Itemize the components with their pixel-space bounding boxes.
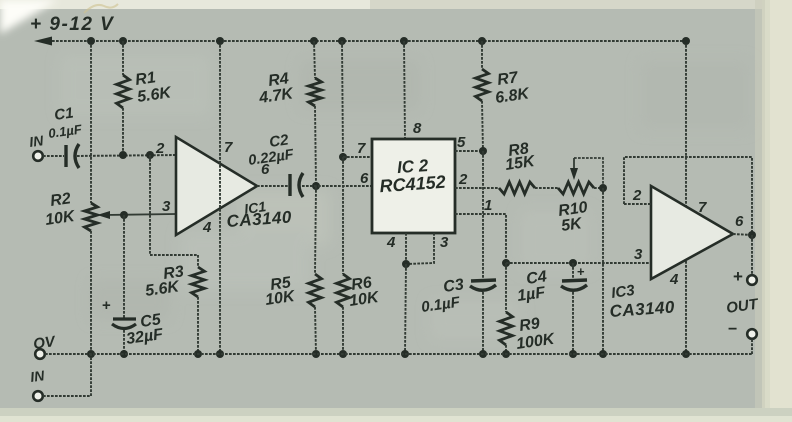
junction C4 ground [569,350,577,358]
wire V+ to IC2 pin8 [404,41,405,139]
V+ rail left arrow [34,37,52,46]
wire pin7node to R6 [342,157,344,274]
junction R9 ground [502,350,510,358]
wire C1 to pin2 node [77,155,176,156]
wire IC2 pin1 [455,214,506,263]
wire R6 ground [342,307,344,354]
junction R10 out [599,184,607,192]
op-amp U IC3 [651,186,733,279]
junction V+ R7 [478,37,486,45]
svg-text:4: 4 [386,234,396,251]
wire wiper to C5 [123,215,125,319]
junction pin2 R3 branch [146,151,154,159]
wire V+ to R7 [481,41,483,69]
capacitor C4 [561,280,587,290]
junction V+ R1 [119,37,127,45]
svg-text:R2: R2 [49,190,72,210]
wire node to R5 [315,186,316,274]
capacitor C2 [290,173,303,197]
junction V+ R2 column [87,37,95,45]
wire pin2 branch down [150,155,198,267]
junction IC3 V+ corner [682,37,690,45]
terminal IN bottom [33,391,43,401]
svg-text:−: − [728,321,737,338]
op-amp U IC1 [176,137,257,235]
wire C3 ground [482,292,484,354]
wire R5 ground [315,307,316,354]
svg-text:2: 2 [632,187,642,204]
wire IC2 pin2 to R8 [455,187,499,189]
R2 wiper arrow [97,211,176,219]
R10 wiper bracket [574,158,603,188]
svg-text:5: 5 [457,134,466,151]
wire V+ to R4 [314,41,315,78]
junction pin7 node [339,153,347,161]
junction C3 ground [479,350,487,358]
resistor R2 (pot) [85,203,98,231]
wire R2 to ground [90,231,92,354]
resistor R4 [309,78,322,106]
junction IC3 ground [682,350,690,358]
svg-text:8: 8 [413,120,422,137]
wire V+ rail corner to IC3 [685,41,687,354]
junction V+ R4 [310,37,318,45]
svg-text:+: + [102,297,111,314]
wire IC3 output [733,234,752,235]
resistor R6 [337,274,350,307]
junction pin5 node [479,147,487,155]
terminal IN top [33,151,43,161]
svg-text:+: + [577,264,585,279]
svg-text:4: 4 [669,271,679,288]
wire node to C4 and IC3 [506,262,651,264]
wire IN to C1 [43,155,64,157]
junction R5 ground [312,350,320,358]
wire R9 ground [505,345,507,354]
wire IC1 supply vertical [219,41,221,354]
wire R8 to R10 [535,187,558,189]
resistor R8 [499,182,535,194]
wire ground to minus [751,339,753,354]
junction C2 node [312,182,320,190]
IC U2 RC4152 box [372,139,455,233]
wire C5 to ground [123,330,125,354]
junction R1 input node [119,151,127,159]
terminal OUT plus [747,275,757,285]
svg-text:2: 2 [155,140,165,157]
svg-text:6: 6 [735,213,744,230]
svg-text:5K: 5K [560,215,584,235]
capacitor C1 [66,144,79,168]
wire C4 top [572,263,574,278]
wire R4 to C2 node [315,106,316,186]
wire ground rail [45,353,752,355]
junction C5 ground [120,350,128,358]
wire IN bottom [43,354,91,396]
capacitor C5 [112,319,136,329]
junction R10 ground [599,350,607,358]
wire pin5 node to C3 [482,151,484,278]
svg-text:7: 7 [224,139,233,156]
svg-text:2: 2 [458,171,468,188]
terminal OUT minus [747,329,757,339]
wire IC2 pin4 down [405,233,407,264]
terminal OV [35,349,45,359]
svg-text:+: + [733,267,743,286]
wire V+ to R1 [122,41,124,75]
svg-text:IC3: IC3 [610,282,636,302]
wire pin1 node to R9 [505,263,507,312]
svg-text:6: 6 [360,170,369,187]
wire pin7 node to IC2 [343,156,372,158]
resistor R1 [117,75,130,108]
junction IC1 ground [216,350,224,358]
junction R6 ground [339,350,347,358]
junction C4 node [569,259,577,267]
junction R3 ground [194,350,202,358]
resistor R5 [309,274,322,307]
resistor R9 [500,312,513,345]
capacitor C3 [470,280,496,290]
wire V+ to R2 [90,41,92,203]
wire IC2 supply ground [405,264,406,354]
svg-text:3: 3 [634,246,643,263]
resistor R10 (pot) [558,182,594,194]
junction IC3 out [748,231,756,239]
wire IC2 pin5 [455,150,483,152]
resistor R3 [192,267,205,297]
wire IC2 pin3 down [406,233,434,264]
junction R9 node [502,259,510,267]
wire V+ rail [40,40,686,42]
wire R10 right [594,187,603,189]
feedback wire IC3 [624,157,752,235]
svg-text:R7: R7 [496,69,520,89]
junction IC1 V+ [216,37,224,45]
svg-text:3: 3 [440,234,449,251]
junction R2 ground [87,350,95,358]
svg-text:7: 7 [357,140,366,157]
junction V+ IC2 pin8 [400,37,408,45]
junction V+ R6 col [338,37,346,45]
R10 wiper arrow [570,158,578,180]
junction pin4 pin3 [402,260,410,268]
wire R1 to pin2 node [122,108,124,155]
wire IC1 out to C2 [257,185,288,187]
wire R10 to ground [602,188,604,354]
resistor R7 [476,69,489,101]
wire C4 ground [572,292,574,354]
svg-text:1: 1 [484,197,492,214]
svg-text:+ 9-12 V: + 9-12 V [30,14,114,35]
wire R7 to pin5 node [482,101,483,151]
svg-text:C3: C3 [442,276,465,296]
wire out to + terminal [751,235,753,275]
wire C2 to IC2 pin6 [302,185,372,187]
svg-text:3: 3 [162,198,171,215]
svg-text:C1: C1 [53,104,74,124]
wire V+ to pin7 node [342,41,343,157]
svg-text:7: 7 [698,199,707,216]
svg-text:4: 4 [202,219,212,236]
junction IC2 ground [401,350,409,358]
junction wiper C5 [120,211,128,219]
wire R3 to ground [197,297,199,354]
wire IC3 pin2 [624,203,651,205]
